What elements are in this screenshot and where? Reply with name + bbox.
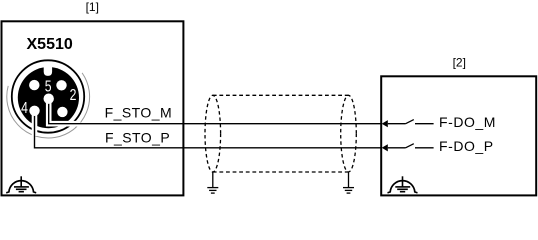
svg-text:F-DO_P: F-DO_P xyxy=(439,138,494,154)
pin 4 (bottom-left) xyxy=(29,106,39,116)
svg-text:5: 5 xyxy=(45,78,52,95)
svg-text:X5510: X5510 xyxy=(27,36,73,53)
connector X5510 outer circle xyxy=(12,60,84,132)
arrowhead F-DO_M xyxy=(382,120,388,127)
pin 3 (bottom-right) xyxy=(57,107,67,117)
pin 2 (top-right) xyxy=(56,80,66,90)
svg-text:F-DO_M: F-DO_M xyxy=(439,114,496,130)
connector X5510 body disc xyxy=(18,67,79,128)
svg-text:[1]: [1] xyxy=(86,0,99,14)
wire F_STO_M (pin 5 to box [2]) xyxy=(49,99,382,124)
earth symbol box 1 xyxy=(6,176,36,193)
svg-text:F_STO_P: F_STO_P xyxy=(105,129,170,145)
cable shield left ellipse xyxy=(205,95,221,172)
connector keying notch xyxy=(44,66,52,76)
svg-text:4: 4 xyxy=(21,100,28,117)
wire F_STO_M casing xyxy=(49,99,81,124)
svg-text:2: 2 xyxy=(70,87,77,104)
cable shield top dashed line xyxy=(213,94,349,96)
connector X5510 flange circle xyxy=(7,73,90,138)
svg-text:[2]: [2] xyxy=(453,56,466,70)
shield ground right xyxy=(343,172,354,193)
device box [1] xyxy=(2,21,184,195)
switch contact F-DO_P xyxy=(388,144,434,148)
shield ground left xyxy=(207,172,218,193)
cable shield right ellipse xyxy=(341,95,357,172)
earth symbol box 2 xyxy=(388,176,418,193)
pin 1 (top-left) xyxy=(29,80,39,90)
wire F_STO_P (pin 4 to box [2]) xyxy=(35,111,382,148)
pin 5 (center) xyxy=(44,94,54,104)
switch contact F-DO_M xyxy=(388,120,434,124)
arrowhead F-DO_P xyxy=(382,144,388,151)
wire F_STO_P casing xyxy=(32,111,38,136)
svg-text:F_STO_M: F_STO_M xyxy=(105,104,172,120)
cable shield bottom dashed line xyxy=(213,171,349,173)
device box [2] xyxy=(381,76,536,195)
